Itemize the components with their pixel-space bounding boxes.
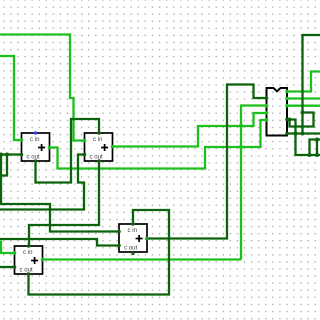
- wire net W1 (input A high bit to U2 adder input A): [0, 35, 85, 141]
- node J6 (junction D10/D11 at 289.5,119.5): [288, 118, 292, 122]
- wire net W6 (U4 sum output along y=259.5): [43, 258, 242, 260]
- node J9 (junction D11/D11b at 309.5,155): [308, 153, 312, 157]
- svg-text:c in: c in: [30, 136, 39, 143]
- wire net W10 (subcircuit right pin 3 out right): [287, 105, 320, 107]
- svg-text:c in: c in: [23, 249, 32, 256]
- wire net D10 (loop from x=302.5 riser y=112.5 to inner comb): [290, 113, 314, 127]
- svg-text:c out: c out: [90, 154, 104, 161]
- svg-text:c out: c out: [124, 245, 138, 252]
- wire net D6 (U2 carry out to U4 carry in): [29, 161, 99, 246]
- svg-text:c in: c in: [128, 227, 137, 234]
- wire net D8 (U3 sum output up to subcircuit left pin at y=98): [147, 85, 267, 239]
- wire net D7 (U4 carry out to U3 carry in): [29, 210, 170, 295]
- wire net D12 (subcircuit right pin at y=133.5 out right): [287, 132, 320, 134]
- node J3 (junction W5/W4 at 241,126): [239, 124, 243, 128]
- wire net W3 (U1 sum output long run to subcircuit pin 3): [50, 120, 267, 169]
- subcircuit U5: [267, 88, 288, 136]
- wire stub D13 (U3 carry out stub): [132, 252, 134, 255]
- wire net D4 (left feed to U4 input B): [0, 266, 15, 268]
- svg-text:c out: c out: [20, 267, 34, 274]
- node J11 (junction D11/D11c at 317,155): [315, 153, 319, 157]
- node J10 (junction D11b/D11c at 317,139.5): [315, 138, 319, 142]
- svg-text:c out: c out: [27, 154, 41, 161]
- wire net W5 (vertical bus riser x=241 to subcircuit pin 1): [241, 106, 267, 260]
- wire net W7 (left edge feed to U4 input A): [1, 241, 15, 254]
- wire net D11 (subcircuit right pin at y=119.5 down and out right at y=155): [287, 120, 320, 156]
- adder U4: [15, 246, 43, 274]
- wire segment D1b (branch down at x=1 to y=204 then to U3 input A): [1, 155, 119, 232]
- node J5 (junction D10 on riser at 302.5,112.5): [301, 111, 305, 115]
- adder U1: [22, 133, 50, 161]
- node J1 (junction on D1 at x=7): [5, 153, 9, 157]
- node pin dots (wire ends at component ports): [13, 90, 289, 276]
- wire segment D11b (loop leg out right at y=139.5): [310, 140, 320, 156]
- wire net W2 (input to U1 adder input A): [0, 56, 22, 140]
- node J7 (junction D12/D11 at 295.5,133.5): [294, 132, 298, 136]
- svg-text:c in: c in: [93, 136, 102, 143]
- wire segment D1a (branch down at x=7, exits left at y=175.5): [0, 155, 7, 176]
- wire net W9 (subcircuit right pin 2 out right): [287, 97, 320, 99]
- wire net D3 (left feed y=239 to U3 input B): [0, 239, 119, 246]
- wire net W8 (subcircuit right pin 1 up and out top right): [287, 72, 320, 92]
- wire net D9 (top right entry down the x=302.5 riser): [303, 35, 320, 134]
- wire segment D11c (loop leg x=317): [316, 140, 318, 156]
- adder U2: [85, 133, 113, 161]
- adder U3: [119, 224, 147, 252]
- wire net D1 (left feed to U1 input B, branches down to U3 input A): [0, 153, 22, 155]
- wire net D2 (left feed y=209.5 to U2 input B): [0, 155, 85, 210]
- wire net D5 (U1 carry out to U2 carry in): [36, 119, 100, 183]
- wire net W4 (U2 sum output to subcircuit pin 2): [113, 113, 267, 147]
- node J2 (junction on D1 at x=1): [0, 153, 3, 157]
- node U1.cin unconnected (blue): [34, 131, 37, 134]
- node J8 (junction D9 end on D12 at 302.5,133.5): [301, 132, 305, 136]
- node J4 (junction W5/W3 at 241,147): [239, 145, 243, 149]
